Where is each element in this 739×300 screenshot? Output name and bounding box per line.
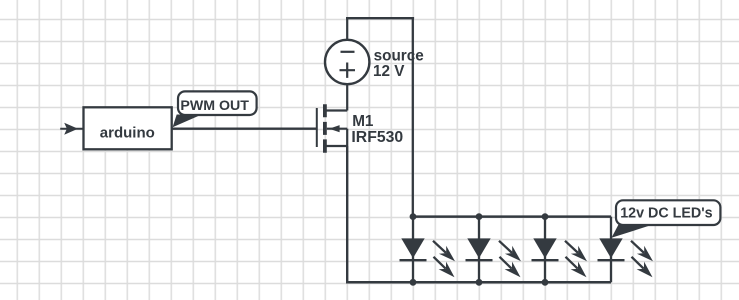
transistor M1 body-source bracket [346,129,348,146]
callout PWM OUT [178,91,257,115]
wire: arduino output to MOSFET gate [172,128,317,130]
wire: source bottom vertical to drain [346,84,348,111]
wire: top LED bus [413,215,611,218]
wire: MOSFET source down to bottom bus [346,146,348,282]
callout tail PWM OUT [173,115,202,128]
wire: input stub into arduino [60,128,83,130]
transistor M1 channel segments [323,104,327,153]
transistor M1 gate bar [316,108,318,147]
transistor M1 drain stub [326,109,347,111]
LED D3 [532,217,588,283]
svg-text:arduino: arduino [100,124,155,141]
minus sign [341,51,355,53]
plus sign [340,63,356,78]
transistor M1 body stub [327,128,347,130]
svg-text:M1: M1 [352,113,374,130]
svg-text:IRF530: IRF530 [351,129,403,146]
junction dot top bus 2 [476,213,483,220]
LED D1 [400,217,456,283]
junction dot bottom bus 1 [410,279,417,286]
svg-text:PWM OUT: PWM OUT [180,98,249,114]
junction dot top bus 3 [542,213,549,220]
svg-text:source: source [374,48,424,65]
junction dot bottom bus 3 [542,279,549,286]
input arrowhead [64,123,78,135]
voltage source circle [325,40,369,84]
callout tail 12v DC LED's [612,225,654,238]
wire: right branch vertical [412,17,414,217]
svg-text:12 V: 12 V [373,63,405,80]
junction dot top bus 1 [410,213,417,220]
transistor M1 source stub [326,145,347,147]
svg-text:12v DC LED's: 12v DC LED's [620,205,712,221]
junction dot bottom bus 2 [476,279,483,286]
LED D4 [598,217,654,283]
wire: source top vertical [346,17,348,41]
transistor M1 body arrowhead [329,125,339,132]
wire: bottom bus [346,281,611,284]
wire: top loop horizontal [346,17,414,19]
arduino box [84,107,172,149]
LED D2 [466,217,522,283]
callout 12v DC LED's [616,200,720,225]
